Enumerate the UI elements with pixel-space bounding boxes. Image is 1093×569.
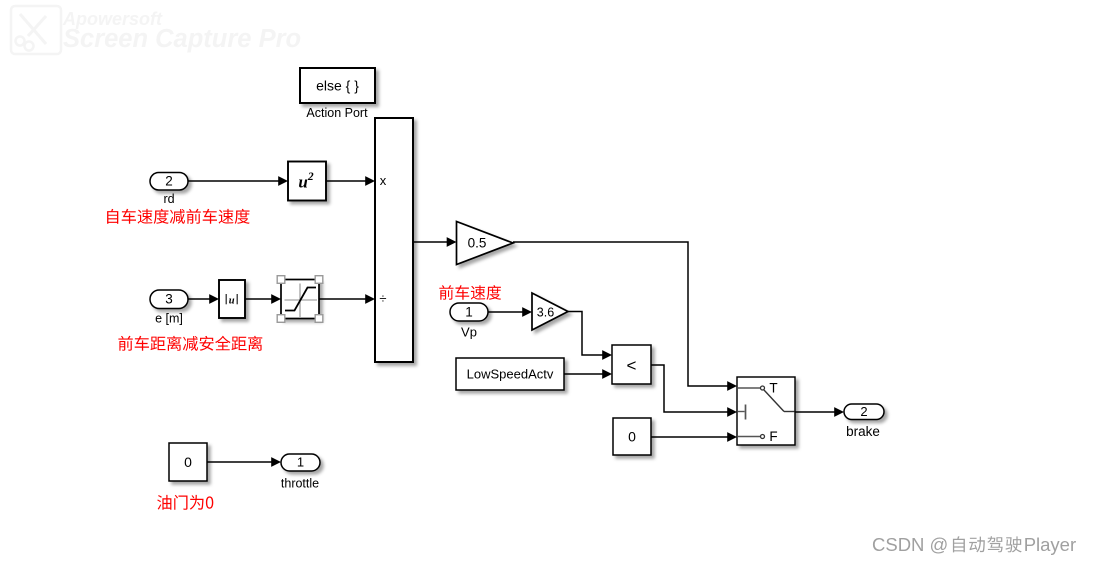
svg-text:1: 1 xyxy=(465,305,473,320)
svg-text:CSDN @: CSDN @ xyxy=(872,534,948,555)
svg-text:u: u xyxy=(229,295,235,306)
svg-text:throttle: throttle xyxy=(281,477,319,491)
svg-text:T: T xyxy=(769,381,777,396)
svg-text:0: 0 xyxy=(628,429,636,445)
svg-text:3.6: 3.6 xyxy=(537,306,554,320)
svg-text:LowSpeedActv: LowSpeedActv xyxy=(467,367,554,382)
svg-text:Vp: Vp xyxy=(461,325,477,340)
svg-text:0: 0 xyxy=(184,454,192,470)
svg-text:Screen Capture Pro: Screen Capture Pro xyxy=(63,25,301,53)
svg-text:e [m]: e [m] xyxy=(155,312,183,326)
svg-text:F: F xyxy=(769,429,777,444)
svg-text:else { }: else { } xyxy=(316,78,359,94)
svg-text:<: < xyxy=(627,356,637,375)
svg-text:÷: ÷ xyxy=(379,291,386,306)
svg-text:Player: Player xyxy=(1024,534,1076,555)
svg-text:1: 1 xyxy=(297,455,304,470)
svg-text:Action Port: Action Port xyxy=(306,106,368,120)
svg-text:brake: brake xyxy=(846,424,880,439)
svg-text:rd: rd xyxy=(163,192,174,206)
svg-text:x: x xyxy=(380,173,387,188)
svg-text:2: 2 xyxy=(860,404,867,419)
svg-text:2: 2 xyxy=(165,174,173,189)
svg-text:3: 3 xyxy=(165,292,173,307)
svg-text:0.5: 0.5 xyxy=(468,236,487,251)
